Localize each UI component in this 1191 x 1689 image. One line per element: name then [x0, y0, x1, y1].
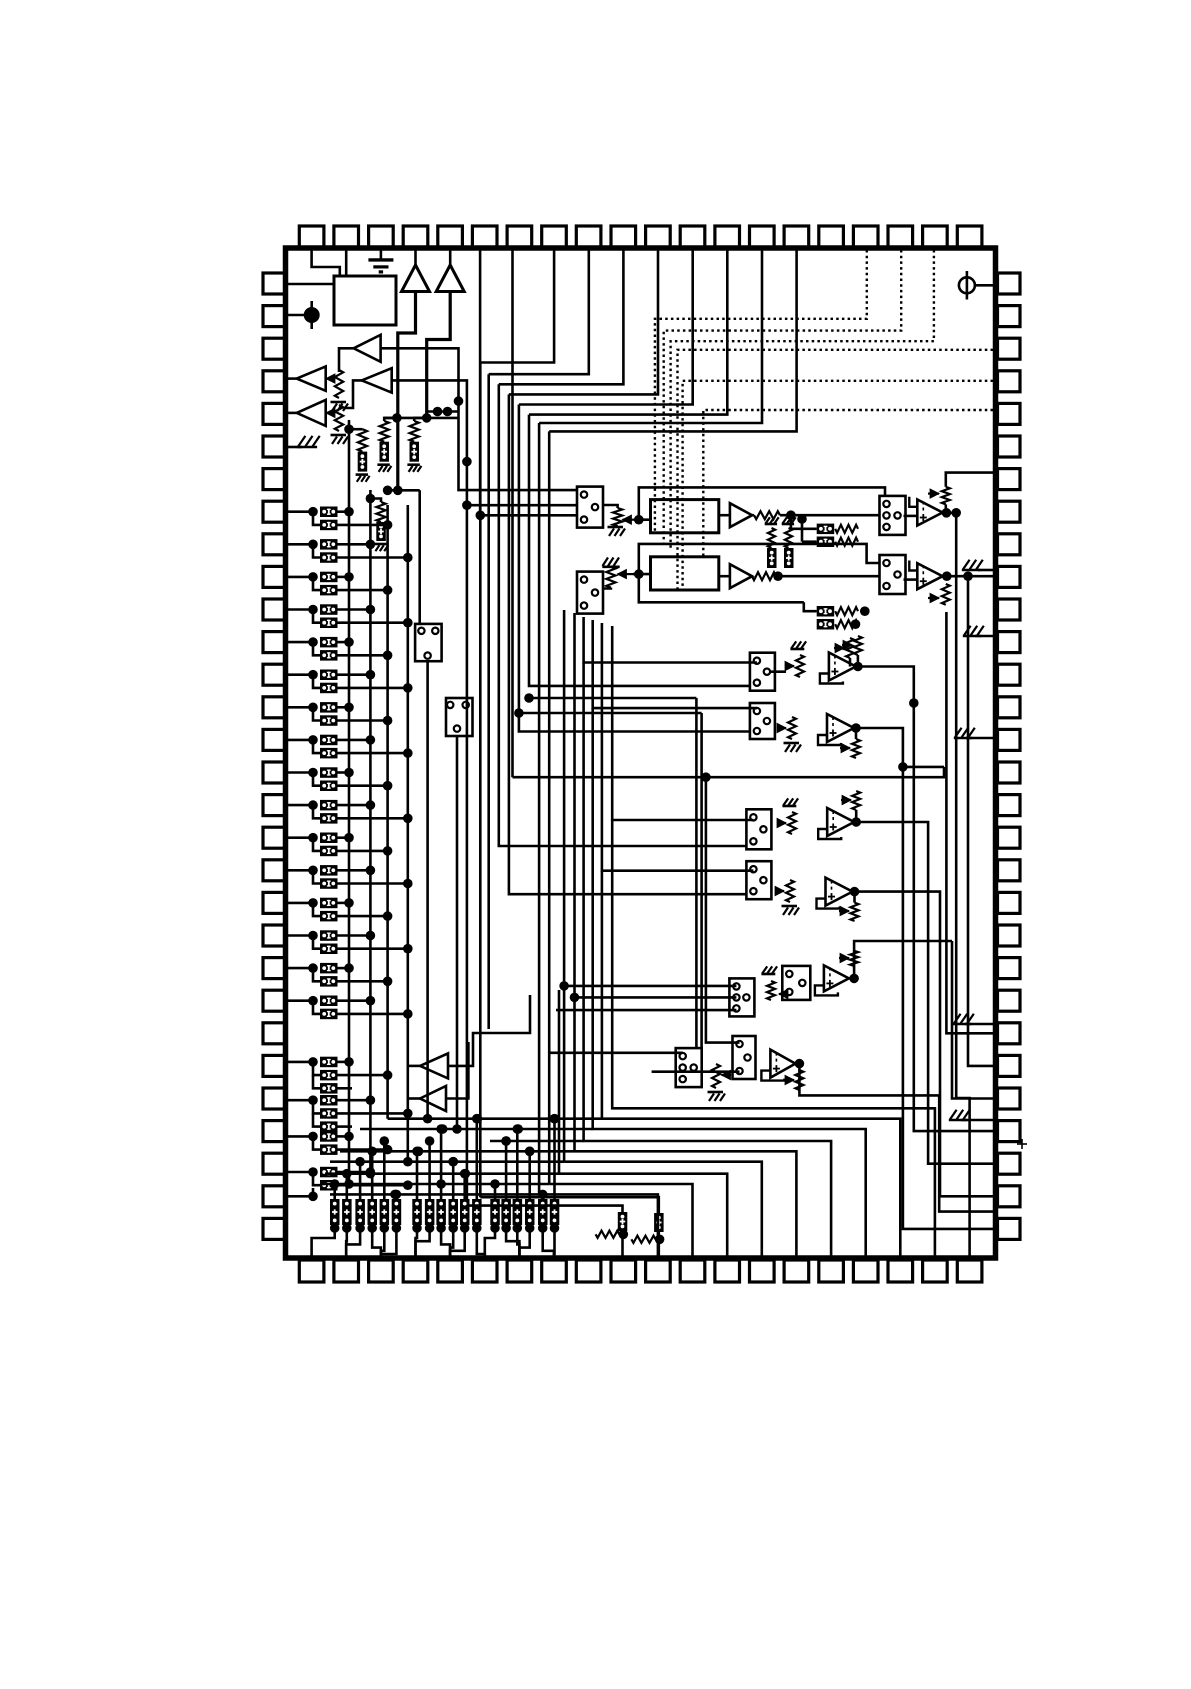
- ground: [608, 526, 624, 529]
- right pin 18: [998, 827, 1021, 848]
- junction: [795, 1059, 805, 1069]
- bottom resistor 1: [330, 1199, 340, 1225]
- left pin 24: [263, 1023, 286, 1044]
- resistor col 4: [366, 494, 376, 504]
- component row 2a: [817, 606, 835, 617]
- bus wire from top pin 13: [529, 250, 727, 415]
- bottom pin 16: [819, 1260, 844, 1282]
- bus wire from top pin 8: [480, 250, 554, 363]
- wire X2 to bottom pin: [657, 1232, 660, 1258]
- wire M2 down: [456, 736, 459, 1129]
- right pin 8: [998, 501, 1021, 522]
- bottom pin 18: [888, 1260, 913, 1282]
- left pin 30: [263, 1218, 286, 1239]
- bottom bus y1129: [360, 1128, 593, 1131]
- cell bus line 1: [348, 420, 351, 1184]
- wire net F inputs: [706, 777, 740, 1042]
- bottom resistor 5: [380, 1199, 390, 1225]
- right pin 22: [998, 958, 1021, 979]
- wire to bottom pin: [416, 1235, 418, 1258]
- wire to right pin: [914, 703, 993, 1131]
- bundle wire 4: [519, 405, 750, 732]
- left pin 6: [263, 436, 286, 457]
- junction: [850, 887, 860, 897]
- wire to bottom pin: [441, 1235, 450, 1258]
- trimmer out SE: [850, 951, 858, 966]
- dotted bus 5: [683, 381, 993, 590]
- bottom pin 8: [542, 1260, 567, 1282]
- wire O1 out to border: [946, 473, 993, 487]
- wire L4 out to selector: [392, 380, 578, 505]
- right pin 13: [998, 664, 1021, 685]
- op-amp SA: [829, 653, 856, 681]
- input cell row 11: [288, 836, 313, 839]
- wire to right pin: [903, 767, 993, 1229]
- junction: [942, 571, 952, 581]
- op-amp SF: [770, 1050, 795, 1078]
- trim resistor SA: [796, 655, 804, 677]
- wire to bottom pin: [381, 1235, 384, 1258]
- top pin 13: [715, 226, 740, 248]
- wire cross top a: [384, 417, 458, 420]
- crystal pin symbol: [959, 277, 975, 293]
- bottom pin 2: [334, 1260, 359, 1282]
- wire top pin 7 down to net y777: [511, 250, 514, 777]
- bottom resistor 18: [550, 1199, 560, 1225]
- wire SF out: [799, 1064, 993, 1212]
- IC package body outline: [286, 248, 996, 1258]
- bottom resistor 12: [472, 1199, 482, 1225]
- wire L1 tip: [339, 348, 354, 372]
- wire X1 to bottom pin: [621, 1231, 624, 1258]
- trimmer out SF: [795, 1070, 803, 1090]
- bottom resistor 7: [412, 1199, 422, 1225]
- bottom pin 20: [957, 1260, 982, 1282]
- wire inverter A out: [448, 995, 530, 1066]
- selector box SD: [746, 861, 771, 899]
- right pin 9: [998, 534, 1021, 555]
- right pin 25: [998, 1055, 1021, 1076]
- bottom resistor 3: [355, 1199, 365, 1225]
- dotted bus 1: [655, 250, 867, 533]
- selector box SA: [750, 653, 775, 691]
- bottom pin 17: [853, 1260, 878, 1282]
- relay box F0: [676, 1048, 702, 1087]
- left pin 3: [263, 338, 286, 359]
- bottom resistor 13: [490, 1199, 500, 1225]
- bottom box X1: [618, 1212, 628, 1231]
- resistor SC: [788, 812, 796, 834]
- bottom bus y1151: [340, 1150, 575, 1153]
- plus marker: [1017, 1143, 1027, 1145]
- wire to bottom pin: [450, 1235, 465, 1258]
- input cell row low 2: [288, 1099, 313, 1102]
- bottom resistor 6: [392, 1199, 402, 1225]
- bottom resistor 11: [460, 1199, 470, 1225]
- trimmer out SD: [851, 903, 859, 921]
- selector box L2: [577, 572, 603, 614]
- bottom pin 3: [369, 1260, 394, 1282]
- top pin 14: [750, 226, 775, 248]
- wire to bottom pin: [519, 1235, 529, 1258]
- bottom pin 14: [750, 1260, 775, 1282]
- wire SA out: [858, 667, 914, 704]
- top pin 1: [299, 226, 324, 248]
- bottom pin 19: [923, 1260, 948, 1282]
- wire to component row 2a: [804, 602, 817, 611]
- right pin 14: [998, 697, 1021, 718]
- top pin 16: [819, 226, 844, 248]
- left pin 26: [263, 1088, 286, 1109]
- ground: [708, 1091, 724, 1094]
- input cell row 13: [288, 902, 313, 905]
- bottom resistor 17: [538, 1199, 548, 1225]
- dotted bus 2: [664, 250, 902, 545]
- bottom pin 1: [299, 1260, 324, 1282]
- left pin 14: [263, 697, 286, 718]
- input cell row low 3: [288, 1135, 313, 1138]
- cell bus line 4: [406, 505, 409, 1162]
- bottom pin 9: [576, 1260, 601, 1282]
- selector box SE: [729, 978, 754, 1016]
- junction: [851, 723, 861, 733]
- bottom pin 13: [715, 1260, 740, 1282]
- bus wire from top pin 10: [499, 250, 624, 384]
- bus wire from top pin 11: [509, 250, 658, 394]
- junction: [942, 508, 952, 518]
- right pin 20: [998, 892, 1021, 913]
- junction: [851, 817, 861, 827]
- left pin 18: [263, 827, 286, 848]
- bottom pin 10: [611, 1260, 636, 1282]
- input cell row 14: [288, 934, 313, 937]
- ground: [331, 401, 347, 404]
- wire to right pin: [968, 576, 993, 1066]
- selector box L1: [577, 487, 603, 528]
- top pin 18: [888, 226, 913, 248]
- right pin 4: [998, 371, 1021, 392]
- left pin 23: [263, 990, 286, 1011]
- chassis ground right: [965, 1023, 993, 1026]
- staircase wire to pin x934: [612, 820, 935, 1258]
- wire to bottom pin: [517, 1235, 519, 1258]
- left pin 22: [263, 958, 286, 979]
- input cell row low 1: [288, 1061, 313, 1064]
- dotted bus 4: [678, 350, 994, 590]
- ground: [331, 434, 347, 437]
- wire pair down to F: [695, 698, 698, 1048]
- bottom resistor 10: [449, 1199, 459, 1225]
- right pin 2: [998, 306, 1021, 327]
- component row 1a: [817, 524, 835, 535]
- processing block B2: [651, 557, 719, 590]
- wire pot mid down: [849, 658, 852, 667]
- wire O1 output down to bottom pin 20: [956, 513, 969, 1258]
- dotted bus 6: [703, 410, 993, 556]
- oscillator box: [334, 276, 396, 325]
- resistor SD: [786, 880, 794, 902]
- cell bus line 3: [386, 505, 389, 1119]
- left pin 11: [263, 599, 286, 620]
- staircase wire to pin x831: [584, 663, 832, 1259]
- bundle wire 3: [529, 415, 750, 686]
- wire to bottom pin: [477, 1235, 485, 1258]
- bottom pin 15: [784, 1260, 809, 1282]
- right pin 26: [998, 1088, 1021, 1109]
- wire to bottom pin: [372, 1235, 381, 1258]
- bundle wire 5: [509, 394, 747, 894]
- bottom resistor 2: [342, 1199, 352, 1225]
- top pin 19: [923, 226, 948, 248]
- wire to right pin: [928, 855, 993, 1164]
- cell bus line 2: [369, 490, 372, 1174]
- junction: [849, 974, 859, 984]
- left pin 7: [263, 469, 286, 490]
- staircase wire to pin x727: [559, 990, 727, 1258]
- wire pin6 continue down to X2 box: [479, 515, 482, 1197]
- wire inverter B out: [446, 1042, 468, 1099]
- resistor SE: [767, 981, 775, 1000]
- bottom bus y1162: [330, 1160, 564, 1163]
- wire L4 tip: [344, 380, 362, 408]
- staircase wire to pin x796: [575, 1151, 797, 1258]
- feed wire B top: [593, 620, 757, 708]
- right pin 23: [998, 990, 1021, 1011]
- bottom bus y1141: [490, 1140, 584, 1143]
- junction dots top: [392, 413, 402, 423]
- staircase wire to pin x900: [602, 871, 900, 1258]
- left pin 4: [263, 371, 286, 392]
- left pin 1: [263, 273, 286, 294]
- long vertical v574: [573, 613, 576, 1151]
- left pin 9: [263, 534, 286, 555]
- wire cross top b: [427, 410, 459, 413]
- right pin 7: [998, 469, 1021, 490]
- right pin 1: [998, 273, 1021, 294]
- junction: [853, 662, 863, 672]
- ground near O2: [978, 569, 993, 572]
- left pin 19: [263, 860, 286, 881]
- wire top pin 6 down to selector L1: [480, 250, 577, 515]
- input cell row 6: [288, 673, 313, 676]
- selector box SC: [746, 809, 771, 849]
- bottom pin 11: [646, 1260, 671, 1282]
- amp A2: [730, 564, 752, 588]
- resistor col 3: [414, 418, 427, 421]
- top pin 5: [438, 226, 463, 248]
- wire down to relay M1: [418, 490, 421, 624]
- wire X2 up: [480, 1197, 659, 1213]
- input cell row 8: [288, 739, 313, 742]
- bus wire from top pin 14: [539, 250, 762, 423]
- top pin 11: [646, 226, 671, 248]
- chassis ground right: [975, 635, 993, 638]
- wire to right pin: [940, 930, 993, 1196]
- op-amp O2: [917, 563, 942, 589]
- bottom bus y1174: [325, 1172, 559, 1175]
- bottom resistor 14: [501, 1199, 511, 1225]
- pad dot: [310, 301, 313, 329]
- feedback wire row1: [639, 487, 885, 519]
- relay box M1: [415, 624, 442, 661]
- wire amp1 out: [398, 292, 416, 491]
- bundle wire 6: [499, 384, 747, 846]
- right pin 29: [998, 1186, 1021, 1207]
- wire to right pin: [952, 941, 993, 1099]
- buffer amp 1: [414, 250, 417, 265]
- staircase wire to pin x657: [539, 1194, 658, 1258]
- op-amp SB: [827, 714, 854, 742]
- bus wire from top pin 9: [489, 250, 589, 374]
- bottom bus y1184: [320, 1183, 550, 1186]
- pot mid: [846, 638, 854, 658]
- wire from left border: [288, 283, 334, 286]
- left pin 17: [263, 795, 286, 816]
- trimmer below O2: [942, 584, 950, 605]
- junction: [634, 569, 644, 579]
- trimmer out SC: [852, 791, 860, 810]
- bottom resistor 9: [436, 1199, 446, 1225]
- bundle wire 7: [487, 374, 490, 1029]
- left pin 5: [263, 403, 286, 424]
- op-amp SE: [824, 965, 849, 991]
- resistor R1: [754, 511, 780, 519]
- resistor left of X1: [596, 1231, 620, 1238]
- junction U1 line bus3: [383, 486, 393, 496]
- wire to bottom pin: [506, 1235, 519, 1258]
- top pin 20: [957, 226, 982, 248]
- op-amp SC: [827, 808, 854, 836]
- long vertical v564: [563, 610, 566, 1162]
- output inverter A: [420, 1053, 448, 1078]
- wire amp2 out: [427, 292, 451, 418]
- trimmer out SB: [852, 739, 860, 758]
- resistor col 1: [344, 424, 354, 434]
- input wire low last: [288, 1188, 313, 1196]
- left pin 27: [263, 1121, 286, 1142]
- wire L4 branch down to X1 box: [466, 505, 469, 1205]
- right pin 28: [998, 1153, 1021, 1174]
- trimmer out SA: [854, 636, 862, 655]
- right pin 12: [998, 632, 1021, 653]
- junction: [454, 396, 464, 406]
- trim resistor P1: [603, 505, 618, 508]
- left pin 21: [263, 925, 286, 946]
- bottom pin 12: [680, 1260, 705, 1282]
- left pin 8: [263, 501, 286, 522]
- feed wire D top: [602, 623, 754, 871]
- top pin 9: [576, 226, 601, 248]
- resistor col 2: [384, 418, 397, 421]
- input cell row 5: [288, 641, 313, 644]
- input cell row 12: [288, 869, 313, 872]
- inverter L1: [354, 335, 381, 362]
- junction: [634, 515, 644, 525]
- top pin 7: [507, 226, 532, 248]
- top pin 2: [334, 226, 359, 248]
- resistor SF: [712, 1064, 720, 1088]
- wire X1 up: [467, 1206, 623, 1212]
- bundle wire 1: [548, 431, 551, 1184]
- staircase wire to pin x865: [593, 708, 866, 1258]
- inverter L4: [362, 368, 392, 392]
- wire to component row 1a: [791, 527, 817, 530]
- wire to bottom pin: [312, 1235, 335, 1258]
- left pin 12: [263, 632, 286, 653]
- wire to bottom pin: [553, 1235, 556, 1258]
- bottom resistor 8: [425, 1199, 435, 1225]
- trimmer above O1: [942, 487, 950, 505]
- top pin 8: [542, 226, 567, 248]
- op-amp O1: [917, 500, 942, 526]
- feed wire C top: [612, 626, 753, 820]
- right pin 27: [998, 1121, 1021, 1142]
- wire M1 down: [426, 661, 429, 1118]
- right pin 30: [998, 1218, 1021, 1239]
- bottom box X2: [654, 1213, 664, 1232]
- feedback wire row2: [639, 544, 880, 574]
- chassis ground left: [288, 446, 302, 449]
- wire SC out: [856, 822, 928, 855]
- amp A1: [730, 503, 752, 527]
- bottom resistor 16: [525, 1199, 535, 1225]
- trim resistor P2: [602, 565, 619, 568]
- top pin 15: [784, 226, 809, 248]
- top pin 3: [369, 226, 394, 248]
- wire to right pin: [946, 612, 993, 1033]
- top pin 4: [403, 226, 428, 248]
- input cell row 7: [288, 706, 313, 709]
- left pin 15: [263, 729, 286, 750]
- input cell row 15: [288, 967, 313, 970]
- component row 1b: [817, 537, 835, 548]
- right pin 11: [998, 599, 1021, 620]
- bundle wire 8: [479, 363, 482, 516]
- wire SD out: [855, 892, 941, 930]
- right pin 17: [998, 795, 1021, 816]
- left pin 10: [263, 566, 286, 587]
- dotted bus 3: [671, 250, 934, 548]
- bottom pin 7: [507, 1260, 532, 1282]
- bottom resistor 4: [368, 1199, 378, 1225]
- input cell row 1: [288, 510, 313, 513]
- left pin 2: [263, 306, 286, 327]
- wire to bottom pin: [450, 1235, 453, 1258]
- wire net E inputs: [564, 985, 736, 988]
- resistor SB: [788, 717, 796, 739]
- resistor R2: [752, 572, 776, 580]
- left pin 28: [263, 1153, 286, 1174]
- bottom pin 4: [403, 1260, 428, 1282]
- input cell row 3: [288, 576, 313, 579]
- op-amp SD: [826, 878, 853, 906]
- right pin 21: [998, 925, 1021, 946]
- trim resistor R-L2: [335, 370, 343, 398]
- ground: [782, 905, 798, 908]
- right pin 24: [998, 1023, 1021, 1044]
- top pin 17: [853, 226, 878, 248]
- input cell row 16: [288, 999, 313, 1002]
- ground: [784, 742, 800, 745]
- left pin 20: [263, 892, 286, 913]
- component row 2b: [817, 619, 835, 630]
- top pin 10: [611, 226, 636, 248]
- right pin 3: [998, 338, 1021, 359]
- selector box R1: [880, 496, 906, 535]
- input cell row 9: [288, 771, 313, 774]
- selector box R2: [880, 555, 906, 594]
- wire L1 out to selector: [381, 348, 577, 490]
